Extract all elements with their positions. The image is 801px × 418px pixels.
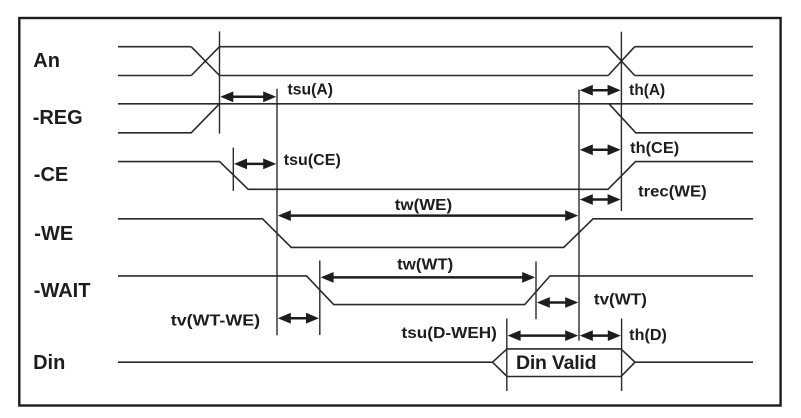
- dimension arrow trec(WE): [580, 194, 621, 205]
- tick T3 (WAIT rise midpoint): [535, 262, 537, 320]
- -CE waveform: [118, 162, 753, 190]
- svg-text:An: An: [33, 50, 60, 72]
- dimension arrow tw(WE): [278, 210, 578, 221]
- svg-text:th(CE): th(CE): [630, 140, 679, 157]
- svg-text:tw(WE): tw(WE): [395, 197, 452, 214]
- An bus waveform: [118, 47, 753, 76]
- tick T5 (Din valid end): [621, 319, 623, 392]
- svg-text:tsu(A): tsu(A): [288, 82, 334, 99]
- svg-text:-REG: -REG: [33, 107, 83, 129]
- dimension arrow th(D): [580, 330, 621, 341]
- dimension arrow tv(WT-WE): [278, 313, 319, 324]
- tick T2 (WAIT fall midpoint): [319, 261, 321, 336]
- dimension arrow th(CE): [580, 144, 621, 155]
- -WE waveform: [118, 219, 753, 248]
- svg-text:Din: Din: [33, 352, 65, 374]
- -WAIT waveform: [118, 276, 753, 305]
- Din waveform with valid window: [118, 349, 753, 377]
- Din Valid hexagon: [493, 349, 636, 377]
- svg-text:tw(WT): tw(WT): [397, 257, 453, 274]
- An left crossover: [191, 47, 219, 76]
- dimension arrow tw(WT): [321, 272, 536, 283]
- svg-text:tv(WT-WE): tv(WT-WE): [171, 312, 260, 329]
- svg-text:-CE: -CE: [34, 164, 68, 186]
- vertical ref line V4 (address change, right): [620, 32, 622, 211]
- dimension arrow th(A): [580, 85, 621, 96]
- tick T1 (CE fall midpoint): [232, 148, 234, 191]
- vertical ref line V2 (WE fall): [276, 89, 278, 336]
- dimension arrow tv(WT): [537, 297, 578, 308]
- dimension arrow tsu(D-WEH): [508, 330, 579, 341]
- vertical ref line V1 (address change, left): [219, 31, 221, 133]
- -REG waveform: [118, 104, 753, 133]
- svg-text:tv(WT): tv(WT): [594, 292, 647, 309]
- vertical ref line V3 (WE rise): [578, 90, 580, 341]
- svg-text:Din Valid: Din Valid: [516, 352, 597, 374]
- svg-text:-WAIT: -WAIT: [34, 280, 91, 302]
- svg-text:-WE: -WE: [34, 223, 73, 245]
- An right crossover: [608, 47, 635, 76]
- dimension arrow tsu(A): [220, 91, 276, 102]
- svg-text:tsu(D-WEH): tsu(D-WEH): [402, 325, 497, 342]
- tick T4 (Din valid start): [506, 319, 508, 392]
- svg-text:th(A): th(A): [629, 82, 665, 99]
- svg-text:trec(WE): trec(WE): [638, 183, 707, 200]
- svg-text:tsu(CE): tsu(CE): [284, 152, 341, 169]
- dimension arrow tsu(CE): [234, 159, 276, 170]
- svg-text:th(D): th(D): [629, 327, 667, 344]
